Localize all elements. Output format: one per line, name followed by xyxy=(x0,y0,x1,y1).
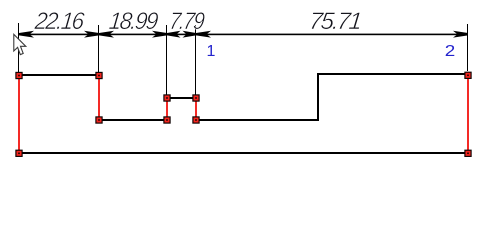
vertex handle (468,74) xyxy=(465,72,471,78)
dim arrow left of 22.16 (tip x=19, points left) xyxy=(19,31,34,38)
profile top segment 1 (19,75)-(99,75) xyxy=(18,74,99,76)
extension line 2 (x=99) xyxy=(98,25,99,72)
dim arrow right of 22.16 (tip x=99, points right) xyxy=(84,31,99,38)
dimension line (chain, y=34) xyxy=(18,34,468,36)
profile mid segment (196,120)-(318,120) xyxy=(195,119,319,121)
selected red segment (167,98)-(167,120) xyxy=(166,98,168,120)
vertex handle (99,75) xyxy=(96,72,102,78)
vertex handle (196,120) xyxy=(193,117,199,123)
mouse cursor xyxy=(14,34,26,54)
vertex handle (19,153) xyxy=(16,150,22,156)
profile bump top (167,98)-(196,98) xyxy=(166,97,196,99)
profile mid segment (99,120)-(167,120) xyxy=(98,119,167,121)
dim text 18.99 xyxy=(108,7,160,34)
extension line 3 (x=167) xyxy=(166,25,167,95)
dim arrow left of 75.71 (tip x=196, points left) xyxy=(196,31,211,38)
profile bottom line (19,153)-(468,153) xyxy=(18,152,469,154)
node label 2 (blue) xyxy=(445,43,456,60)
vertex handle (468,153) xyxy=(465,150,471,156)
dim arrow right of 7.79 (tip x=196, points right) xyxy=(183,31,197,38)
vertex handle (167,120) xyxy=(164,117,170,123)
extension line 4 (x=196) xyxy=(195,25,196,95)
vertex handle (99,120) xyxy=(96,117,102,123)
selected red segment (19,76)-(19,153) xyxy=(18,76,20,153)
svg-text:2: 2 xyxy=(445,43,456,60)
svg-text:1: 1 xyxy=(207,43,216,60)
dim text 7.79 xyxy=(168,7,206,34)
svg-text:7.79: 7.79 xyxy=(168,7,206,34)
vertex handle (19,75) xyxy=(16,72,22,78)
dim text 75.71 xyxy=(308,8,362,35)
node label 1 (blue) xyxy=(207,43,216,60)
dim arrow left of 18.99 (tip x=99, points left) xyxy=(99,31,114,38)
dim text 22.16 xyxy=(33,7,86,34)
vertex handle (167,98) xyxy=(164,95,170,101)
svg-text:22.16: 22.16 xyxy=(33,7,86,34)
dim arrow left of 7.79 (tip x=167, points left) xyxy=(167,31,181,38)
extension line 5 (x=468) xyxy=(467,24,468,71)
selected red segment (196,98)-(196,120) xyxy=(195,98,197,120)
selected red segment (468,75)-(468,153) xyxy=(467,75,469,153)
dim arrow right of 75.71 (tip x=468, points right) xyxy=(453,31,468,38)
extension line 1 (x=19) xyxy=(18,23,19,73)
dim arrow right of 18.99 (tip x=167, points right) xyxy=(152,31,167,38)
svg-text:18.99: 18.99 xyxy=(108,7,160,34)
selected red segment (99,76)-(99,120) xyxy=(98,76,100,120)
profile step vertical (318,120)-(318,74) xyxy=(317,74,319,121)
svg-text:75.71: 75.71 xyxy=(308,8,362,35)
vertex handle (196,98) xyxy=(193,95,199,101)
profile top segment 2 (318,74)-(468,74) xyxy=(317,73,468,75)
